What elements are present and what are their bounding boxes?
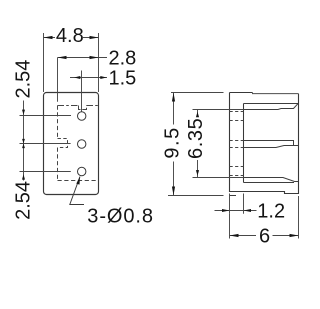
leader line for hole label	[70, 177, 84, 205]
center tongue top and tip	[244, 141, 294, 146]
svg-text:3-Ø0.8: 3-Ø0.8	[87, 206, 154, 228]
arrowhead 1.2 left (outside)	[222, 209, 230, 212]
dim 6.35 top extension line	[193, 109, 244, 111]
leader arrowhead at hole3	[76, 176, 80, 184]
dim 6.35 line	[197, 110, 199, 178]
hole centerline vertical	[81, 71, 83, 112]
connector body front view	[44, 93, 99, 195]
svg-text:6: 6	[259, 225, 270, 247]
pin 3	[244, 178, 299, 182]
svg-text:1.5: 1.5	[109, 67, 137, 89]
flange bottom step piece	[230, 195, 237, 197]
arrowhead 4.8 right	[90, 36, 99, 39]
dim 2.54 extension line hole2	[20, 143, 71, 145]
slot1 ceiling with chamfer	[244, 103, 299, 105]
pin 2	[244, 146, 299, 148]
hole 2	[78, 140, 86, 148]
svg-text:9.5: 9.5	[162, 126, 184, 158]
arrowhead 2.8 left	[58, 56, 67, 59]
hidden contact slot notch	[79, 106, 87, 110]
svg-text:2.8: 2.8	[109, 47, 137, 69]
hidden cavity left edge (dashed)	[57, 106, 59, 181]
dim 6.35 bottom extension line	[193, 177, 244, 179]
arrowhead 4.8 left	[44, 36, 53, 39]
svg-text:1.2: 1.2	[257, 200, 285, 222]
slot2 floor	[244, 182, 295, 184]
side view housing outline	[230, 93, 299, 194]
arrowhead diamond at middle ext	[22, 139, 25, 148]
hidden cavity top edge right part (dashed)	[87, 105, 99, 107]
dim 1.5 line	[70, 77, 107, 79]
hidden key tab (dashed)	[58, 139, 68, 148]
svg-text:2.54: 2.54	[13, 60, 35, 99]
hidden cavity top edge (dashed)	[58, 105, 79, 107]
dim 2.8 line	[58, 57, 108, 59]
hidden cavity bottom edge (dashed)	[58, 180, 99, 182]
arrowhead 6 left	[230, 234, 239, 237]
top edge stepped lip	[253, 93, 299, 94]
arrowhead 9.5 bottom	[172, 187, 175, 196]
dim 2.54 extension line hole3	[20, 171, 71, 173]
arrowhead 6 right	[290, 234, 299, 237]
dim 4.8 line	[44, 37, 99, 39]
arrowhead 6.35 top	[196, 112, 199, 118]
arrowhead 2.54 upper top	[22, 110, 25, 115]
hidden hole1 lines in wall	[230, 112, 244, 121]
pin 1	[244, 104, 298, 110]
arrowhead 2.54 lower bottom	[22, 174, 25, 179]
hole 3	[78, 167, 86, 175]
dim 6 line	[230, 235, 299, 237]
dim 6 extension lines	[230, 196, 299, 239]
dim 2.54 vertical dimension line	[23, 101, 25, 181]
hidden hole2 lines in wall	[230, 141, 244, 148]
dim 2.8 extension line	[57, 58, 59, 102]
dim 2.54 extension line hole1	[20, 115, 72, 117]
inner back wall	[243, 104, 245, 183]
dim 4.8 extension lines	[44, 33, 99, 92]
svg-text:6.35: 6.35	[185, 118, 207, 159]
arrowhead 1.5 left (outside)	[74, 76, 80, 79]
dim 9.5 top extension line	[171, 92, 224, 94]
arrowhead 6.35 bottom	[196, 170, 199, 176]
arrowhead 2.8 right	[90, 56, 99, 59]
arrowhead 9.5 top	[172, 93, 175, 102]
hidden hole3 lines in wall	[230, 167, 244, 176]
dim 1.2 line	[215, 210, 257, 212]
svg-text:2.54: 2.54	[13, 181, 35, 220]
svg-text:4.8: 4.8	[56, 25, 84, 47]
arrowhead 1.2 right (outside)	[244, 209, 252, 212]
dim 1.2 extension lines	[230, 194, 244, 214]
dim 9.5 line	[173, 93, 175, 196]
arrowhead 1.5 right (outside)	[100, 76, 106, 79]
dim 9.5 bottom extension line	[168, 195, 224, 197]
hole 1	[78, 112, 86, 120]
